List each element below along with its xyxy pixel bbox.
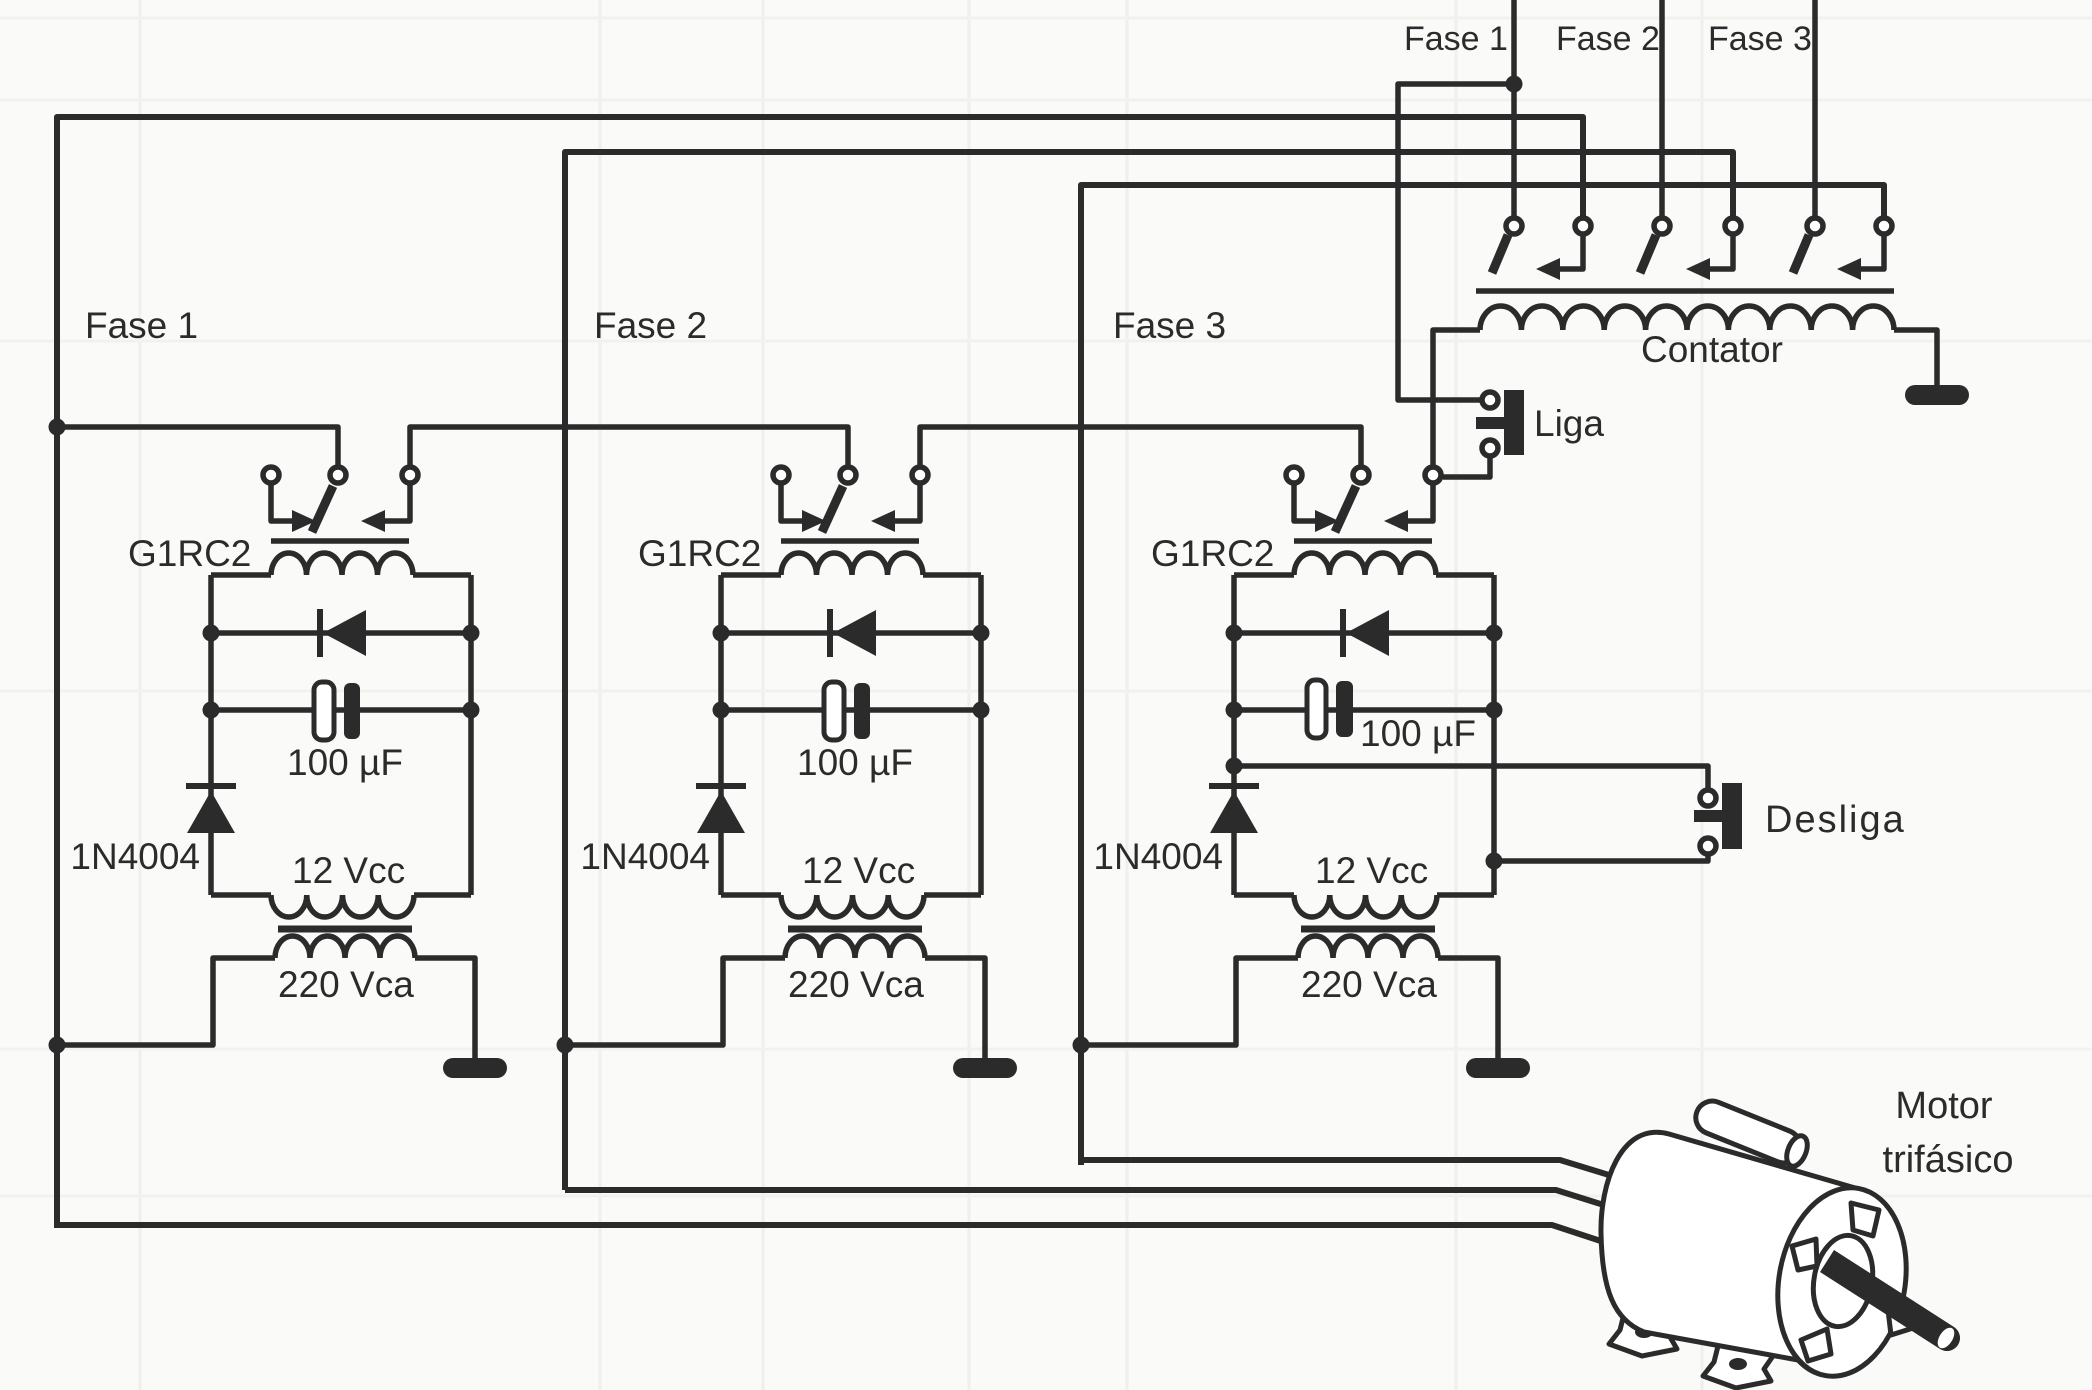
capacitor C1 negative plate: [314, 682, 334, 740]
contactor pole 1 left terminal: [1506, 218, 1522, 234]
capacitor C3 negative plate: [1307, 680, 1326, 738]
relay K2 NC terminal: [773, 467, 789, 483]
relay K3 NO arrow: [1384, 510, 1408, 532]
node relay K2 diode rail right: [973, 625, 990, 642]
node relay K1 cap rail left: [203, 702, 220, 719]
relay K1 NC terminal: [263, 467, 279, 483]
wire relay K1 coil right lead: [413, 572, 471, 578]
svg-text:G1RC2: G1RC2: [128, 533, 251, 574]
wire T2 secondary left: [721, 892, 781, 898]
svg-text:G1RC2: G1RC2: [1151, 533, 1274, 574]
wire relay2 NO to relay3 common: [920, 427, 1361, 465]
diode 1N4004 cathode bar (relay K3): [1209, 783, 1259, 789]
pushbutton Desliga plunger: [1694, 810, 1722, 822]
contactor pole 3 left terminal: [1807, 218, 1823, 234]
motor hub: [1806, 1231, 1879, 1332]
relay K2 lever: [822, 486, 843, 532]
svg-text:220 Vca: 220 Vca: [1301, 964, 1437, 1005]
wire relay K3 NC lead: [1294, 485, 1315, 521]
contactor pole 1 right terminal: [1575, 218, 1591, 234]
wire relay K1 capacitor rail: [211, 707, 471, 713]
contactor pole 2 arrow: [1686, 258, 1710, 280]
node Desliga return to relay K3 rail: [1486, 853, 1503, 870]
svg-text:1N4004: 1N4004: [70, 836, 200, 877]
relay K1 pivot bar: [271, 538, 409, 544]
svg-text:1N4004: 1N4004: [1093, 836, 1223, 877]
wire Fase 3 to motor: [1081, 1160, 1622, 1179]
motor front slot bottom-left: [1801, 1329, 1831, 1361]
wire T2 secondary right: [924, 892, 981, 898]
svg-text:Liga: Liga: [1534, 403, 1604, 444]
wire relay K1 right rail: [468, 575, 474, 895]
svg-text:G1RC2: G1RC2: [638, 533, 761, 574]
relay K2 coil: [781, 553, 923, 575]
contactor pole 1 lever: [1492, 235, 1508, 273]
wire Fase 1 input drop: [1511, 0, 1517, 216]
motor front slot top: [1851, 1203, 1879, 1236]
wire relay K2 diode rail: [721, 630, 981, 636]
pushbutton Desliga top terminal: [1700, 790, 1716, 806]
node relay K1 diode rail right: [463, 625, 480, 642]
node Fase1/Liga tap: [1506, 76, 1523, 93]
wire Fase 2 input drop: [1659, 0, 1665, 216]
transformer T3 secondary 12Vcc: [1294, 895, 1437, 917]
contactor pole 3 lever: [1793, 235, 1809, 273]
transformer T2 secondary 12Vcc: [781, 895, 924, 917]
wire relay K3 right rail: [1491, 575, 1497, 895]
contactor pole 3 arrow: [1837, 258, 1861, 280]
wire relay K3 capacitor rail: [1234, 707, 1494, 713]
flyback diode cathode bar (relay K3): [1340, 609, 1346, 657]
svg-text:1N4004: 1N4004: [580, 836, 710, 877]
wire relay K2 left rail: [718, 575, 724, 895]
svg-text:Fase 1: Fase 1: [85, 305, 198, 346]
transformer T3 primary 220Vca: [1298, 936, 1438, 958]
svg-text:220 Vca: 220 Vca: [788, 964, 924, 1005]
motor foot 2: [1703, 1340, 1773, 1388]
svg-text:100 µF: 100 µF: [1360, 713, 1476, 754]
contactor pole 3 right terminal: [1876, 218, 1892, 234]
wire Fase 3 top bus: [1081, 185, 1884, 1165]
wire relay K3 left rail: [1231, 575, 1237, 895]
contactor pole 2 lever: [1640, 235, 1656, 273]
wire T2 primary left lead: [565, 958, 785, 1045]
motor foot 1: [1609, 1308, 1679, 1356]
relay K2 NC arrow: [802, 510, 826, 532]
ground (transformer T3): [1466, 1058, 1530, 1078]
wire T2 primary right lead: [925, 958, 985, 1060]
wire relay K3 to Desliga top: [1234, 766, 1708, 788]
wire contactor coil right lead: [1894, 330, 1937, 387]
wire Fase 3 input drop: [1812, 0, 1818, 216]
wire relay K3 coil left lead: [1234, 572, 1294, 578]
relay K3 NC terminal: [1286, 467, 1302, 483]
svg-text:100 µF: 100 µF: [287, 742, 403, 783]
wire T3 secondary left: [1234, 892, 1294, 898]
wire T1 secondary left: [211, 892, 271, 898]
diode 1N4004 cathode bar (relay K2): [696, 783, 746, 789]
relay K3 pivot bar: [1294, 538, 1432, 544]
svg-text:12 Vcc: 12 Vcc: [802, 850, 915, 891]
wire Fase 1 top bus: [57, 117, 1583, 1228]
capacitor C2 negative plate: [824, 682, 844, 740]
wire contactor pole 2 right drop: [1710, 236, 1733, 269]
flyback diode cathode bar (relay K2): [827, 609, 833, 657]
flyback diode (relay K2): [833, 610, 876, 656]
contactor pole 2 right terminal: [1725, 218, 1741, 234]
wire T1 primary left lead: [57, 958, 275, 1045]
transformer T2 core: [788, 926, 922, 933]
node relay K3 Desliga rail: [1226, 758, 1243, 775]
flyback diode cathode bar (relay K1): [317, 609, 323, 657]
transformer T1 primary 220Vca: [275, 936, 415, 958]
relay K1 lever: [312, 486, 333, 532]
wire relay K3 diode rail: [1234, 630, 1494, 636]
wire Fase 1 to motor: [57, 1225, 1622, 1248]
contactor armature bar: [1476, 288, 1894, 294]
node relay K2 diode rail left: [713, 625, 730, 642]
motor front slot bottom-right: [1888, 1303, 1912, 1335]
ground (transformer T2): [953, 1058, 1017, 1078]
wire relay K2 NC lead: [781, 485, 802, 521]
contactor pole 1 arrow: [1536, 258, 1560, 280]
svg-text:Contator: Contator: [1641, 329, 1783, 370]
motor trifasico body: [1601, 1132, 1921, 1386]
pushbutton Liga bottom terminal: [1482, 440, 1498, 456]
svg-text:Fase 3: Fase 3: [1708, 20, 1812, 58]
svg-text:220 Vca: 220 Vca: [278, 964, 414, 1005]
svg-text:Fase 3: Fase 3: [1113, 305, 1226, 346]
wire relay K3 NO lead: [1408, 485, 1433, 521]
relay K1 NC arrow: [292, 510, 316, 532]
diode 1N4004 (relay K1): [187, 791, 235, 833]
transformer T1 core: [278, 926, 412, 933]
node T1 primary to Fase1 bus: [49, 1037, 66, 1054]
motor top lug: [1691, 1096, 1812, 1169]
relay K1 common terminal: [330, 467, 346, 483]
relay K3 common terminal: [1353, 467, 1369, 483]
wire relay K1 NC lead: [271, 485, 292, 521]
flyback diode (relay K3): [1346, 610, 1389, 656]
node relay K1 cap rail right: [463, 702, 480, 719]
node relay K3 cap rail right: [1486, 702, 1503, 719]
svg-text:Desliga: Desliga: [1765, 799, 1906, 841]
diode 1N4004 (relay K2): [697, 791, 745, 833]
node relay K3 cap rail left: [1226, 702, 1243, 719]
wire relay1 NO to relay2 common: [410, 427, 848, 465]
flyback diode (relay K1): [323, 610, 366, 656]
relay K2 NO arrow: [871, 510, 895, 532]
relay K3 lever: [1335, 486, 1356, 532]
node relay K3 diode rail left: [1226, 625, 1243, 642]
wire T1 secondary right: [414, 892, 471, 898]
wire relay K1 coil left lead: [211, 572, 271, 578]
wire relay K2 coil left lead: [721, 572, 781, 578]
svg-text:Fase 2: Fase 2: [1556, 20, 1660, 58]
transformer T1 secondary 12Vcc: [271, 895, 414, 917]
node Fase1 relay feed tap: [49, 419, 66, 436]
wire T3 primary left lead: [1081, 958, 1298, 1045]
wire Fase 2 top bus: [565, 152, 1733, 1190]
svg-text:100 µF: 100 µF: [797, 742, 913, 783]
relay K2 pivot bar: [781, 538, 919, 544]
diode 1N4004 cathode bar (relay K1): [186, 783, 236, 789]
node relay K2 cap rail right: [973, 702, 990, 719]
pushbutton Liga top terminal: [1482, 392, 1498, 408]
wire T3 secondary right: [1437, 892, 1494, 898]
wire Fase1 tap to Liga: [1398, 84, 1514, 400]
node T3 primary to Fase3 bus: [1073, 1037, 1090, 1054]
wire T3 primary right lead: [1438, 958, 1498, 1060]
pushbutton Liga body: [1504, 390, 1524, 455]
wire relay K1 left rail: [208, 575, 214, 895]
relay K3 NO terminal: [1425, 467, 1441, 483]
wire Fase1 to relay1 common: [57, 427, 338, 465]
contactor pole 2 left terminal: [1654, 218, 1670, 234]
wire relay K2 NO lead: [895, 485, 920, 521]
relay K3 NC arrow: [1315, 510, 1339, 532]
relay K3 coil: [1294, 553, 1436, 575]
wire contactor pole 1 right drop: [1560, 236, 1583, 269]
diode 1N4004 (relay K3): [1210, 791, 1258, 833]
svg-text:Fase 2: Fase 2: [594, 305, 707, 346]
relay K2 common terminal: [840, 467, 856, 483]
contactor coil (Contator): [1480, 306, 1894, 330]
svg-text:12 Vcc: 12 Vcc: [1315, 850, 1428, 891]
wire Fase 2 to motor: [565, 1190, 1626, 1212]
wire Liga bottom to relay 3: [1443, 458, 1490, 477]
wire relay K2 right rail: [978, 575, 984, 895]
wire relay K3 coil right lead: [1436, 572, 1494, 578]
transformer T2 primary 220Vca: [785, 936, 925, 958]
relay K2 NO terminal: [912, 467, 928, 483]
wire relay K1 NO lead: [385, 485, 410, 521]
relay K1 NO terminal: [402, 467, 418, 483]
motor shaft: [1820, 1250, 1960, 1351]
node relay K1 diode rail left: [203, 625, 220, 642]
capacitor C3 positive plate: [1336, 681, 1353, 737]
wire contactor coil left lead: [1433, 330, 1480, 465]
ground (contactor coil): [1905, 385, 1969, 405]
wire T1 primary right lead: [415, 958, 475, 1060]
motor front slot left: [1792, 1239, 1817, 1270]
transformer T3 core: [1301, 926, 1435, 933]
node relay K3 diode rail right: [1486, 625, 1503, 642]
pushbutton Desliga body: [1722, 783, 1742, 849]
relay K1 NO arrow: [361, 510, 385, 532]
wire relay K2 coil right lead: [923, 572, 981, 578]
wire relay K2 capacitor rail: [721, 707, 981, 713]
svg-text:trifásico: trifásico: [1883, 1139, 2014, 1181]
relay K1 coil: [271, 553, 413, 575]
pushbutton Desliga bottom terminal: [1700, 838, 1716, 854]
ground (transformer T1): [443, 1058, 507, 1078]
wire Desliga bottom return: [1494, 856, 1708, 861]
svg-text:Fase 1: Fase 1: [1404, 20, 1508, 58]
capacitor C1 positive plate: [344, 683, 360, 739]
node T2 primary to Fase2 bus: [557, 1037, 574, 1054]
svg-text:Motor: Motor: [1895, 1085, 1992, 1127]
wire contactor pole 3 right drop: [1861, 236, 1884, 269]
wire relay K1 diode rail: [211, 630, 471, 636]
svg-text:12 Vcc: 12 Vcc: [292, 850, 405, 891]
pushbutton Liga plunger: [1476, 417, 1504, 429]
node relay K2 cap rail left: [713, 702, 730, 719]
capacitor C2 positive plate: [854, 683, 870, 739]
